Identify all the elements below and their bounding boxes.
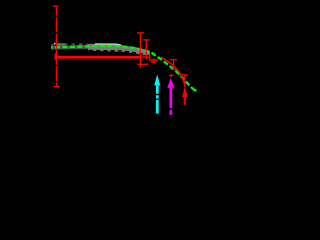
data point 2: vertical error bar x=140.5 bbox=[137, 33, 144, 68]
red model curve (right section) bbox=[161, 57, 185, 87]
data point 1: long horizontal x-error bar bbox=[55, 54, 150, 60]
cyan limit arrow at x=158 bbox=[154, 75, 160, 114]
theory uncertainty band (gray) bbox=[51, 45, 88, 50]
magenta limit arrow at x=170.8 bbox=[167, 78, 174, 115]
red upper-limit: error cap + line above red arrow bbox=[182, 75, 188, 87]
bottom cap bbox=[53, 86, 60, 88]
black dashed lower model curve bbox=[89, 50, 143, 54]
green curve final dash bbox=[194, 89, 196, 91]
red arrow (limit) at x=185 bbox=[182, 86, 187, 105]
data point 6: small cap + stub at x=171.2 bbox=[169, 75, 174, 77]
error bar line (dashed) bbox=[55, 7, 57, 87]
top cap bbox=[53, 5, 59, 7]
left cap bbox=[54, 54, 56, 60]
band top edge highlight (white line) bbox=[95, 44, 121, 45]
data point 4: small cross at (153.3,60.1) bbox=[149, 58, 158, 62]
green central theory curve (dashed) bbox=[51, 46, 196, 91]
right cap bbox=[149, 54, 151, 59]
data point 5: error bar x=173.6 bbox=[170, 60, 177, 70]
data point 3: vertical error bar x=146.4 bbox=[143, 40, 150, 64]
data point 1: huge dashed vertical error bar at x=56 bbox=[53, 6, 60, 87]
horizontal bar (thick main section + thin end) bbox=[55, 56, 139, 59]
data marker (gray square with highlight) at curve start bbox=[52, 44, 54, 47]
band top edge dark-gray dashes (left) bbox=[64, 43, 88, 45]
